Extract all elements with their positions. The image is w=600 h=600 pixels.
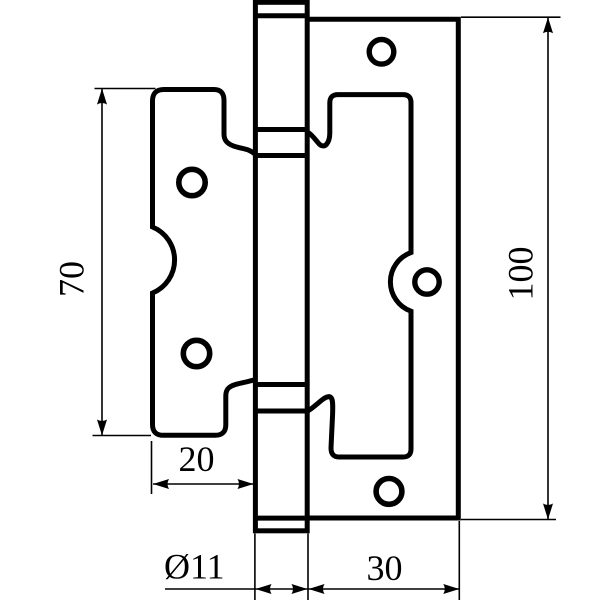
100 bottom arrow (down) <box>543 504 553 520</box>
right leaf outline <box>306 19 458 518</box>
20 left arrow (left) <box>153 479 169 489</box>
100 bottom extension line <box>461 519 556 521</box>
right leaf hole middle <box>415 270 439 294</box>
Ø11 + 30 dimension line <box>165 588 459 590</box>
svg-text:100: 100 <box>501 247 541 301</box>
100 top arrow (up) <box>543 17 553 33</box>
barrel body <box>255 2 307 531</box>
20 dimension line <box>153 483 254 485</box>
Ø11 left arrow (left) <box>256 584 272 594</box>
30 left arrow (left) <box>309 584 325 594</box>
svg-text:Ø11: Ø11 <box>164 547 225 587</box>
knuckle line 3 <box>255 382 307 387</box>
barrel bottom line <box>255 516 307 521</box>
70 bottom extension line <box>93 435 152 437</box>
20 right arrow (right) <box>238 479 254 489</box>
70 top extension line <box>95 88 156 90</box>
knuckle line 4 <box>255 409 307 414</box>
knuckle line 1 <box>255 127 307 132</box>
dimension arrows (filled) <box>97 17 553 594</box>
right leaf hole bottom <box>376 479 402 505</box>
main outlines <box>153 2 459 531</box>
100 top extension line <box>461 16 561 18</box>
knuckle line 2 <box>255 153 307 158</box>
dimension texts <box>52 247 541 588</box>
left leaf hole lower <box>183 340 209 366</box>
100 dimension line <box>547 17 549 519</box>
20 left extension line <box>151 441 153 494</box>
thin dimension/extension lines <box>93 17 561 600</box>
70 top arrow (up) <box>97 89 107 105</box>
70 dimension line <box>101 89 103 436</box>
left leaf outline <box>153 90 256 436</box>
svg-text:20: 20 <box>179 439 215 479</box>
Ø11 left extension line <box>254 534 256 600</box>
svg-text:70: 70 <box>52 261 92 297</box>
30 right arrow (right) <box>443 584 459 594</box>
70 bottom arrow (down) <box>97 420 107 436</box>
30 right extension line <box>458 521 460 600</box>
Ø11 right extension line <box>307 534 309 600</box>
right leaf cutout <box>307 95 411 457</box>
Ø11 right arrow (right) <box>292 584 308 594</box>
barrel top cap line <box>255 13 307 18</box>
svg-text:30: 30 <box>367 548 403 588</box>
right leaf hole top <box>369 40 394 65</box>
left leaf hole upper <box>179 169 205 195</box>
